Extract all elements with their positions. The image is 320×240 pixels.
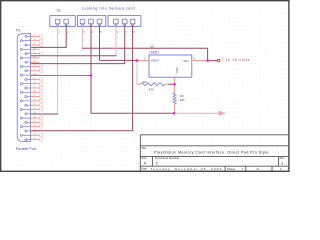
P1 pin 2 [25,43,42,46]
U2 pin stub ADJ [174,77,176,84]
P1 pin 17 [20,65,42,68]
svg-text:of: of [257,167,260,171]
P1 pin 4 [25,61,40,64]
P1 pin 1 [25,35,42,38]
svg-text:2: 2 [156,162,158,166]
P1 pin 3 [25,52,42,55]
wire P1 ground row to U1 pin4 junction [31,75,91,77]
svg-text:R2: R2 [143,80,147,84]
P1 pin 23 [20,116,42,119]
svg-text:LM317: LM317 [149,50,159,54]
P1 pin 21 [20,99,42,102]
junction dot ADJ divider node [173,83,175,85]
svg-text:Looking into memory card: Looking into memory card [82,7,135,11]
P1 pin 22 [20,108,42,111]
wire ground rail horizontal [91,112,176,114]
svg-text:470: 470 [149,88,154,92]
U2 pin stub VOUT [137,60,149,62]
wire VOUT horizontal to node [100,59,138,61]
svg-text:U1: U1 [57,8,61,12]
svg-text:Sheet: Sheet [227,167,235,171]
wire U1 pin7 vertical [124,25,126,63]
resistor R2 [137,83,168,86]
svg-text:Document Number: Document Number [155,156,179,160]
P1 pin 13 [25,138,42,141]
wire U1 pin5 vertical [99,25,101,60]
U1 pin 5 contact [97,19,102,25]
svg-text:Parallel Port: Parallel Port [16,147,36,151]
U1 pin 2 contact [64,19,69,25]
svg-text:VOUT: VOUT [151,59,160,63]
U1 pin 8 contact [130,19,135,25]
op-amp U2 LM317 regulator body [149,55,192,77]
P1 pin 18 [20,73,39,76]
U1 pin 1 contact [55,19,60,25]
svg-text:3: 3 [281,161,283,165]
wire VIN rail vertical drop to node [207,48,209,60]
wire horizontal P1 row to U1 pin8 [31,130,133,132]
P1 pin 11 [25,121,42,124]
P1 pin 25 [20,134,42,137]
U1 pin 7 contact [122,19,127,25]
P1 pin 16 [20,56,39,59]
P1 pin 5 [25,69,42,72]
wire horizontal P1 row to U1 pin6 [31,55,116,57]
svg-text:Playstation Memory Card Inter: Playstation Memory Card Interface, Direc… [154,151,269,155]
svg-text:P1: P1 [16,29,20,33]
P1 pin 14 [20,39,42,42]
connector P1 DB25 body [17,34,30,142]
P1 pin 8 [25,95,42,98]
wire VOUT node down to R2 [136,61,138,85]
U1 pin 3 contact [80,19,85,25]
wire VIN rail horizontal y=48.2 [82,47,208,49]
P1 pin 9 [25,104,42,107]
wire U1 pin6 vertical [115,25,117,56]
svg-text:7 to 15 volts: 7 to 15 volts [222,58,250,62]
title block [140,135,288,171]
junction dot VOUT node [136,59,138,61]
P1 pin 24 [20,125,42,128]
svg-text:Tuesday, November 05, 2002: Tuesday, November 05, 2002 [150,167,221,171]
P1 pin 15 [20,48,39,51]
resistor R1 [173,84,176,113]
wire horizontal P1 row to U1 pin1 [31,113,58,115]
wire ground rail pale continuation [175,112,219,114]
P1 pin 12 [25,129,40,132]
P1 pin 6 [25,78,42,81]
svg-text:Rev: Rev [280,156,285,160]
junction dot VIN node [206,59,208,61]
wire horizontal P1 row to U1 pin2 [31,46,67,48]
wire U1 pin3 vertical [82,25,84,48]
U1 pin 6 contact [114,19,119,25]
wire U1 pin2 vertical [65,25,67,47]
wire R2 to ADJ junction [168,83,175,85]
off-page ground arrowhead [219,111,226,116]
svg-text:ADJ: ADJ [175,67,179,73]
P1 pin 20 [20,91,42,94]
P1 pin 7 [25,86,42,89]
wire U1 pin4 vertical to ground rail [90,25,92,113]
wire U1 pin1 vertical down to parallel port row [57,25,59,114]
svg-text:120: 120 [180,98,185,102]
svg-text:Title: Title [141,146,146,150]
U2 pin stub VIN [192,60,208,62]
wire horizontal P1 row to U1 pin7 [31,63,125,65]
P1 pin 10 [25,112,40,115]
junction dot ground tie [90,74,92,76]
connector U1 memory card socket [50,16,141,27]
U1 pin 4 contact [89,19,94,25]
open terminal circle 7-15V input [217,59,220,62]
wire VIN node to input terminal [208,60,218,62]
page border frame [1,1,289,172]
P1 pin 19 [20,82,42,85]
wire U1 pin8 vertical [132,25,134,131]
svg-text:Size: Size [141,156,147,160]
svg-text:Date: Date [141,167,147,171]
junction dot R1 to ground rail [173,112,175,114]
svg-text:VIN: VIN [183,59,188,63]
